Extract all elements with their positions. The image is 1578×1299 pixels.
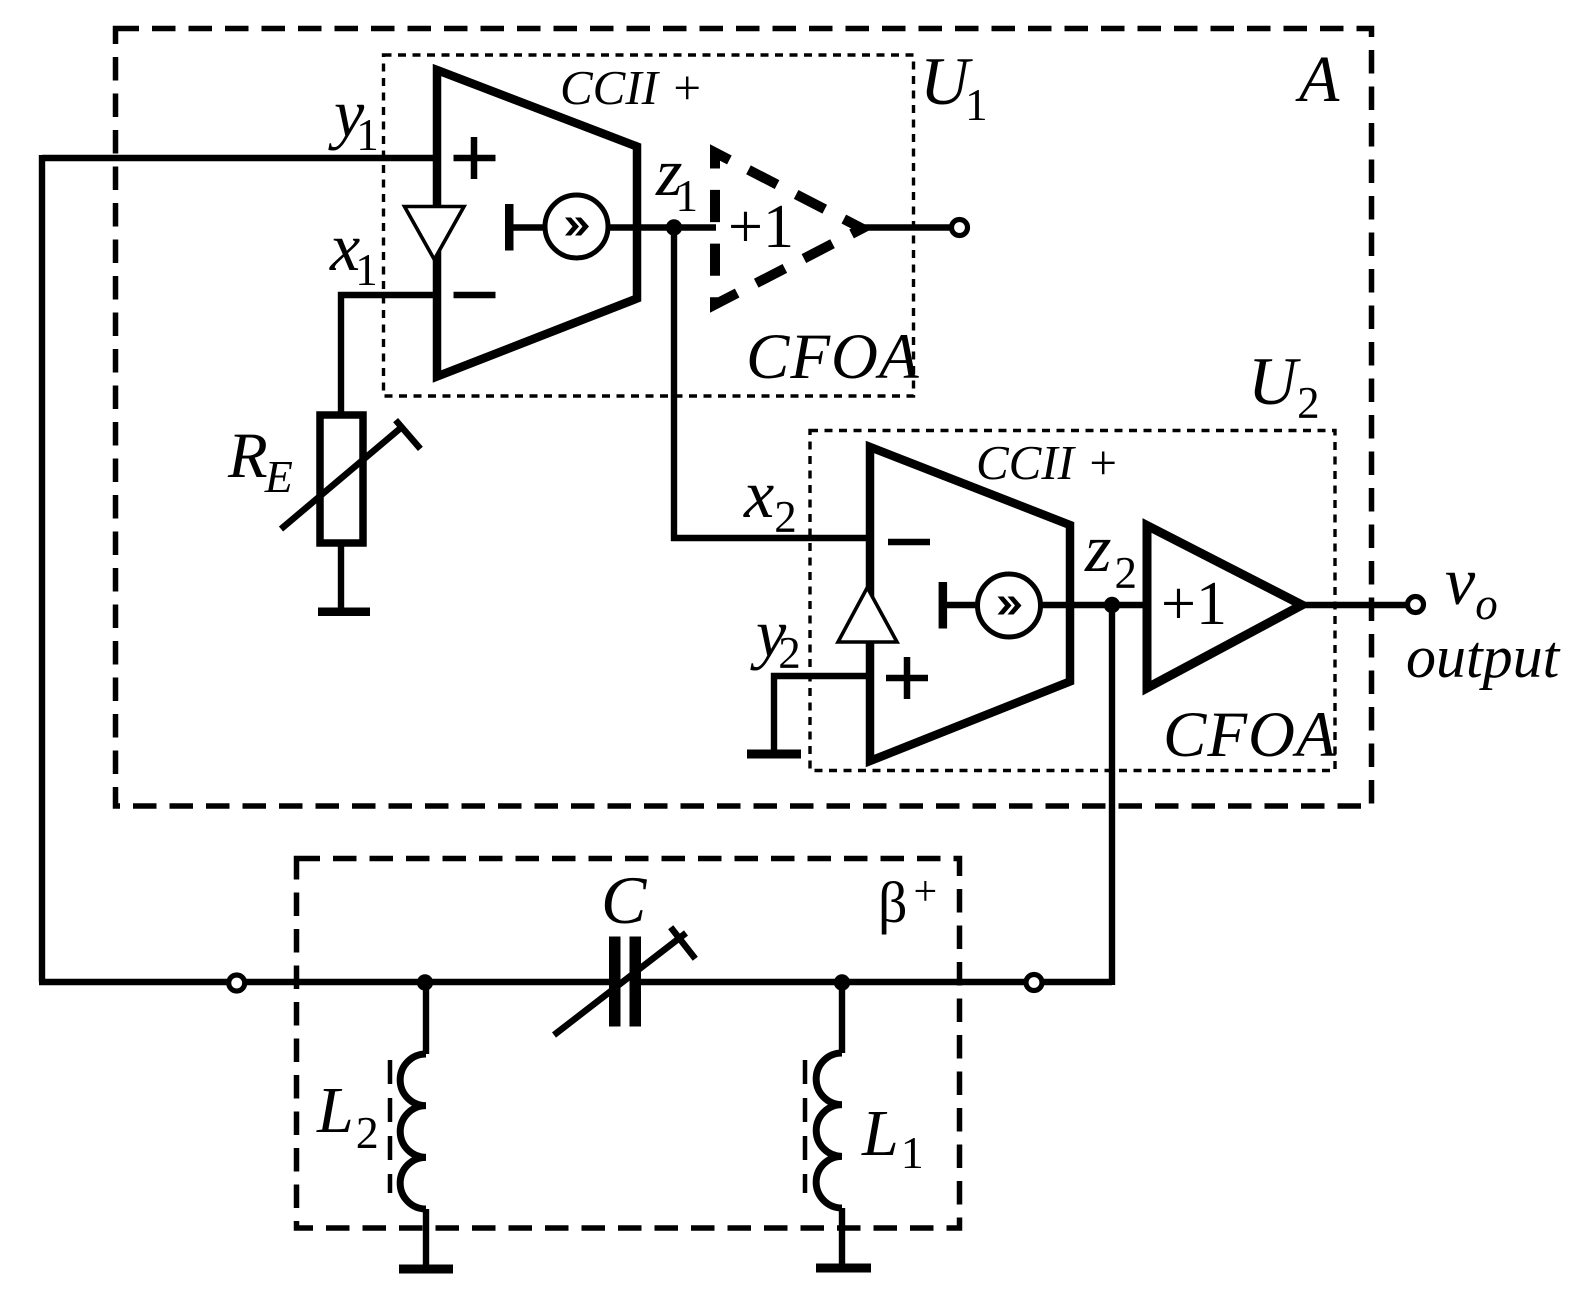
wire source to z1 node U1 [608, 224, 716, 230]
current source circle U1 [545, 195, 608, 258]
minus input marker U2 [888, 539, 930, 546]
wire y1 (input to U1 +) [42, 155, 437, 161]
terminal U2 output (vo) [1408, 597, 1424, 613]
T-bar U2 [939, 582, 948, 629]
outer dashed box A [116, 29, 1372, 807]
chevrons in source U1 [565, 218, 579, 236]
wire source to z2 node U2 [1041, 602, 1148, 608]
CFOA U1 fine dashed box [384, 55, 914, 396]
ground (y2) [747, 750, 801, 759]
ground (L2) [399, 1265, 453, 1274]
wire T-bar to source U1 [509, 224, 545, 230]
svg-text:+1: +1 [1161, 570, 1227, 638]
minus input marker U1 [454, 292, 496, 299]
inductor L1 lead bottom [839, 1208, 845, 1266]
inductor L1 coil [816, 1053, 842, 1208]
capacitor C plates [609, 937, 621, 1027]
current source circle U2 [978, 574, 1041, 637]
wire bottom horizontal (right of C) [635, 979, 1112, 985]
buffer +1 U1 (dashed triangle) [715, 153, 862, 305]
svg-text:output: output [1406, 624, 1561, 690]
chevrons in source U2 [998, 597, 1012, 615]
wire buffer2 output [1302, 602, 1407, 608]
inductor L2 coil [400, 1054, 426, 1209]
terminal bottom-left [229, 975, 245, 991]
ground (RE) [318, 608, 370, 617]
CCII+ trapezoid U1 [437, 70, 637, 377]
CCII+ trapezoid U2 [870, 447, 1070, 761]
inductor L1 dashed core line [803, 1060, 808, 1193]
wire bottom horizontal (left of C) [39, 979, 615, 985]
inductor L2 lead bottom [423, 1209, 429, 1267]
capacitor C arrow [554, 927, 695, 1035]
T-bar U1 [505, 204, 514, 251]
wire RE to ground [338, 543, 344, 610]
wire buffer1 output [853, 224, 951, 230]
wire z1 to x2 [674, 224, 870, 538]
plus input marker U2 [886, 657, 928, 699]
plus input marker U1 [454, 137, 496, 179]
svg-text:CCII +: CCII + [560, 60, 703, 115]
current arrow (down triangle) U1 [405, 207, 465, 260]
node L1 junction dot [834, 974, 850, 990]
CFOA U2 fine dashed box [810, 431, 1335, 771]
node L2 junction dot [417, 974, 433, 990]
wire T-bar to source U2 [943, 602, 978, 608]
current arrow (up triangle) U2 [838, 588, 897, 643]
svg-text:A: A [1295, 43, 1340, 116]
ground (L1) [816, 1264, 871, 1273]
terminal bottom-right [1026, 975, 1042, 991]
inductor L1 lead top [839, 982, 845, 1053]
inductor L2 dashed core line [388, 1060, 393, 1193]
wire z2 riser [1109, 605, 1115, 985]
node z1 junction dot [666, 219, 682, 235]
wire x1 [341, 295, 437, 415]
beta feedback dashed box [297, 859, 960, 1229]
node z2 junction dot [1104, 597, 1120, 613]
inductor L2 lead top [423, 982, 429, 1054]
svg-text:CCII +: CCII + [976, 435, 1119, 490]
svg-text:+1: +1 [728, 193, 794, 261]
svg-text:CFOA: CFOA [746, 321, 920, 393]
wire feedback left vertical [39, 155, 45, 982]
svg-text:CFOA: CFOA [1163, 699, 1337, 771]
resistor RE arrow [281, 420, 420, 529]
resistor RE body [320, 415, 363, 543]
svg-text:C: C [601, 862, 647, 938]
wire y2 with ground drop [774, 676, 870, 751]
buffer +1 U2 (solid triangle) [1147, 526, 1302, 689]
terminal U1 output [952, 220, 968, 236]
